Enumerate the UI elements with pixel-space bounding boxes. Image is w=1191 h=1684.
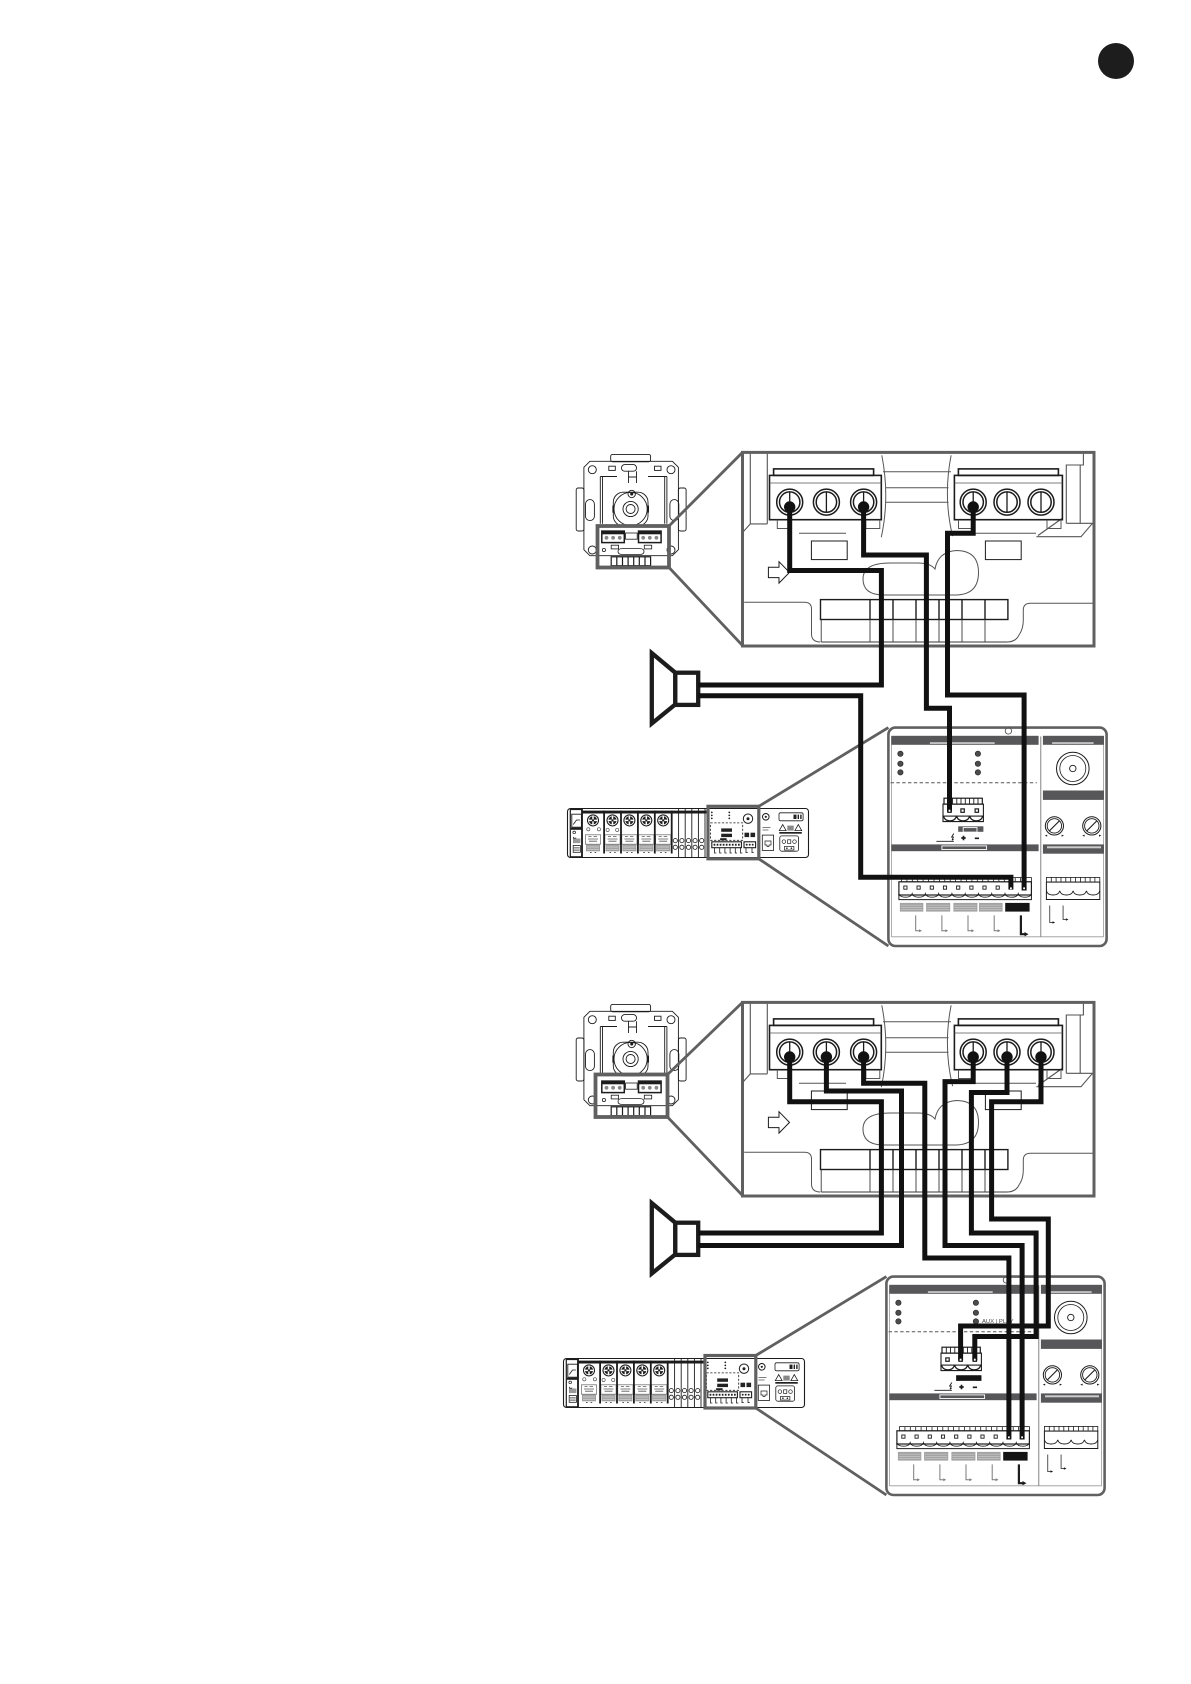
wire: U1 terminal L3 to A1 speaker plug pin 1 xyxy=(864,505,950,812)
junction dot terminal R1 xyxy=(968,501,979,512)
zoom leader line amp2 lower xyxy=(756,1408,887,1495)
junction dot terminal L3 xyxy=(858,501,869,512)
wire: U2 terminal L3 to A2 zone terminal 9 xyxy=(864,1055,1009,1440)
pin hole: A2 zone terminal 9 xyxy=(1008,1436,1010,1438)
loudspeaker LS2 xyxy=(652,1203,698,1273)
junction dot terminal at x=863.6 xyxy=(858,1051,869,1062)
zoom leader line amp1 upper xyxy=(759,728,889,807)
junction dot terminal at x=1007.0 xyxy=(1001,1051,1012,1062)
pin hole: zone terminal 10 xyxy=(1023,887,1025,889)
pin hole: A2 zone terminal 10 xyxy=(1021,1436,1023,1438)
A2 black jumper label xyxy=(956,1375,981,1381)
pin hole: plug pin 1 xyxy=(949,810,951,812)
diagram 2: flush-mount rotary control insert U2 xyxy=(576,1004,686,1118)
amplifier detail view A1 xyxy=(888,728,1106,946)
DIN rail with modules (installation 1) xyxy=(0,0,809,858)
zoom leader line U2 upper xyxy=(668,1002,743,1074)
amplifier module highlight window 1 xyxy=(708,806,759,859)
wire: U1 terminal R1 to A1 zone terminal 10 xyxy=(948,505,1025,891)
pin hole: A2 plug pin 3 xyxy=(974,1359,976,1361)
junction dot terminal at x=1041.0 xyxy=(1035,1051,1046,1062)
amplifier detail view A2 xyxy=(886,1277,1104,1495)
diagram 1: flush-mount rotary control insert U1 xyxy=(576,454,686,568)
zoom leader line U1 upper xyxy=(669,452,743,526)
wire: U2 terminal R2 to A2 speaker plug pin 3 xyxy=(971,1055,1036,1361)
junction dot terminal at x=789.7 xyxy=(784,1051,795,1062)
loudspeaker LS1 xyxy=(652,653,698,723)
wire: U2 terminal R3 to A2 speaker plug pin 2 xyxy=(961,1055,1049,1361)
zoom leader line U1 lower xyxy=(669,568,743,646)
wire: U2 terminal L2 to LS2 minus xyxy=(698,1055,901,1246)
page corner marker dot xyxy=(1098,43,1134,79)
zoom leader line amp2 upper xyxy=(756,1277,887,1356)
junction dot terminal at x=826.4 xyxy=(821,1051,832,1062)
wire: LS1 minus to A1 zone terminal 9 xyxy=(698,696,1011,890)
DIN rail with modules (installation 2) xyxy=(0,550,805,1408)
pin hole: zone terminal 9 xyxy=(1010,887,1012,889)
U1 zoom highlight window xyxy=(598,526,670,568)
terminal detail view of U2 xyxy=(743,1002,1095,1196)
zoom leader line U2 lower xyxy=(668,1117,743,1196)
zoom leader line amp1 lower xyxy=(759,859,889,946)
wire: U2 terminal L1 to LS2 plus xyxy=(698,1055,881,1233)
wire: U1 terminal L1 to LS1 plus xyxy=(698,505,881,685)
pin hole: A2 plug pin 2 xyxy=(960,1359,962,1361)
amplifier module highlight window 2 xyxy=(705,1356,756,1409)
terminal detail view of U1 xyxy=(743,452,1095,646)
junction dot terminal L1 xyxy=(784,501,795,512)
junction dot terminal at x=973.2 xyxy=(968,1051,979,1062)
wire: U2 terminal R1 to A2 zone terminal 10 xyxy=(945,1055,1022,1440)
U2 zoom highlight window xyxy=(596,1075,668,1118)
